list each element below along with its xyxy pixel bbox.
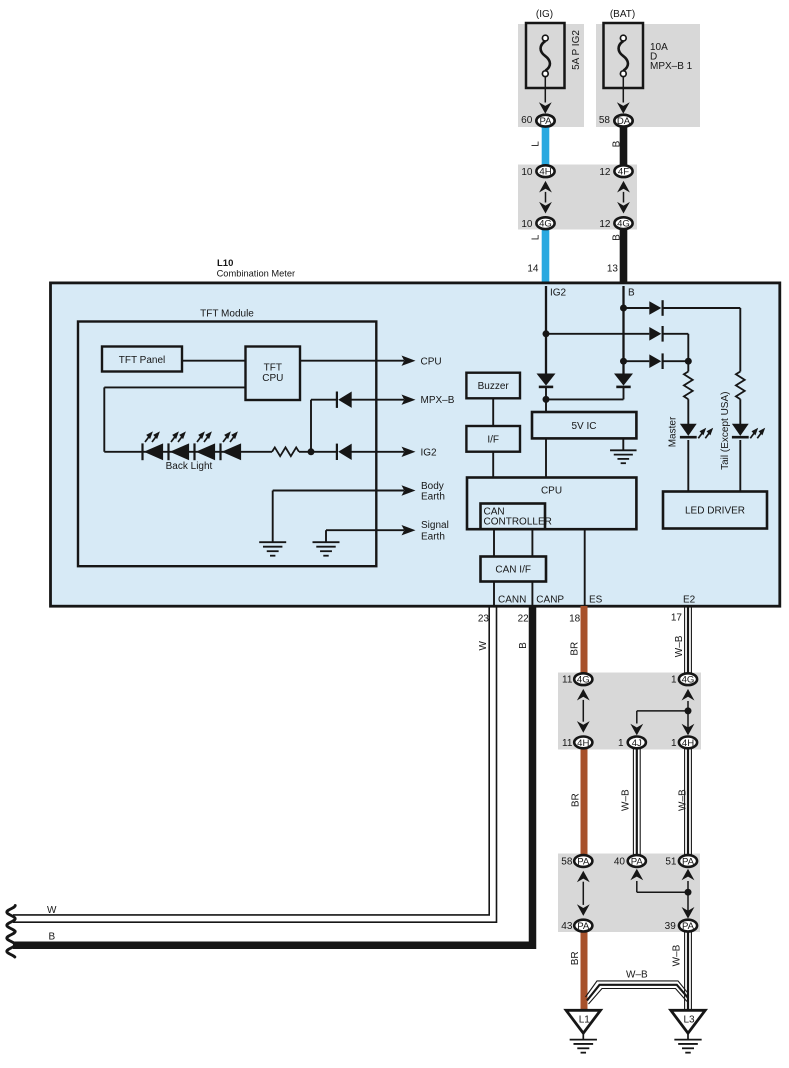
svg-text:IG2: IG2 [421,448,438,459]
svg-text:4G: 4G [539,219,552,230]
svg-text:12: 12 [599,167,611,178]
svg-text:5V IC: 5V IC [571,421,596,432]
svg-text:(IG): (IG) [536,9,553,20]
svg-text:40: 40 [614,857,626,868]
svg-text:Signal: Signal [421,520,449,531]
svg-text:Earth: Earth [421,531,445,542]
svg-text:PA: PA [577,921,590,932]
svg-text:BR: BR [570,951,581,965]
svg-text:W–B: W–B [626,970,648,981]
svg-text:4G: 4G [617,219,630,230]
svg-text:13: 13 [607,264,619,275]
svg-text:Master: Master [668,416,679,447]
svg-text:CPU: CPU [421,356,442,367]
svg-text:DA: DA [617,116,631,127]
svg-text:5A P IG2: 5A P IG2 [571,30,582,70]
svg-text:B: B [49,932,56,943]
svg-text:Back Light: Back Light [166,461,213,472]
svg-text:W: W [478,640,489,650]
svg-text:23: 23 [478,613,490,624]
svg-text:ES: ES [589,594,603,605]
svg-text:W: W [47,905,57,916]
svg-text:4H: 4H [577,738,589,749]
svg-text:4J: 4J [632,738,642,749]
svg-text:I/F: I/F [487,435,499,446]
svg-text:PA: PA [682,856,695,867]
svg-text:B: B [612,140,623,147]
svg-text:Earth: Earth [421,492,445,503]
svg-text:10: 10 [521,167,533,178]
svg-text:CANP: CANP [536,594,564,605]
svg-text:CONTROLLER: CONTROLLER [484,516,552,527]
svg-text:TFT Panel: TFT Panel [119,355,166,366]
svg-text:PA: PA [577,856,590,867]
svg-text:(BAT): (BAT) [610,9,635,20]
svg-text:TFT Module: TFT Module [200,309,254,320]
svg-text:17: 17 [671,613,683,624]
svg-text:IG2: IG2 [550,288,567,299]
svg-text:12: 12 [599,219,611,230]
svg-text:Tail (Except USA): Tail (Except USA) [720,392,731,470]
svg-text:11: 11 [562,675,573,686]
svg-text:1: 1 [671,738,677,749]
svg-text:4F: 4F [618,167,629,178]
svg-text:14: 14 [527,264,539,275]
svg-text:43: 43 [561,921,573,932]
svg-text:4G: 4G [682,675,695,686]
svg-text:W–B: W–B [674,635,685,657]
svg-text:L: L [531,234,542,240]
svg-text:L10: L10 [217,258,233,269]
svg-text:58: 58 [599,115,611,126]
svg-text:LED DRIVER: LED DRIVER [685,506,745,517]
svg-text:BR: BR [570,642,581,656]
svg-text:CAN I/F: CAN I/F [495,565,531,576]
svg-text:CANN: CANN [498,594,526,605]
svg-text:B: B [518,642,529,649]
svg-text:Buzzer: Buzzer [478,381,510,392]
svg-text:E2: E2 [683,594,696,605]
svg-text:W–B: W–B [621,789,632,811]
svg-text:PA: PA [539,116,552,127]
svg-text:L1: L1 [579,1015,591,1026]
svg-text:B: B [612,234,623,241]
svg-text:10: 10 [521,219,533,230]
svg-text:PA: PA [682,921,695,932]
svg-text:18: 18 [569,613,581,624]
svg-text:MPX–B 1: MPX–B 1 [650,61,693,72]
svg-text:22: 22 [518,613,530,624]
svg-text:MPX–B: MPX–B [421,395,455,406]
svg-text:Combination Meter: Combination Meter [217,268,296,278]
svg-text:L3: L3 [683,1015,695,1026]
svg-text:39: 39 [665,921,677,932]
svg-text:PA: PA [631,856,644,867]
svg-text:CPU: CPU [262,373,283,384]
svg-text:BR: BR [571,793,582,807]
svg-text:11: 11 [562,738,573,749]
svg-text:W–B: W–B [678,789,689,811]
svg-text:4H: 4H [682,738,694,749]
svg-text:51: 51 [665,857,677,868]
svg-text:1: 1 [671,675,677,686]
svg-text:4H: 4H [539,167,551,178]
svg-text:L: L [531,141,542,147]
svg-text:W–B: W–B [672,944,683,966]
svg-text:B: B [628,288,635,299]
svg-text:1: 1 [618,738,624,749]
svg-text:60: 60 [521,115,533,126]
svg-text:4G: 4G [577,675,590,686]
svg-text:58: 58 [561,857,573,868]
svg-text:TFT: TFT [264,362,282,373]
svg-text:Body: Body [421,481,444,492]
svg-text:CPU: CPU [541,485,562,496]
